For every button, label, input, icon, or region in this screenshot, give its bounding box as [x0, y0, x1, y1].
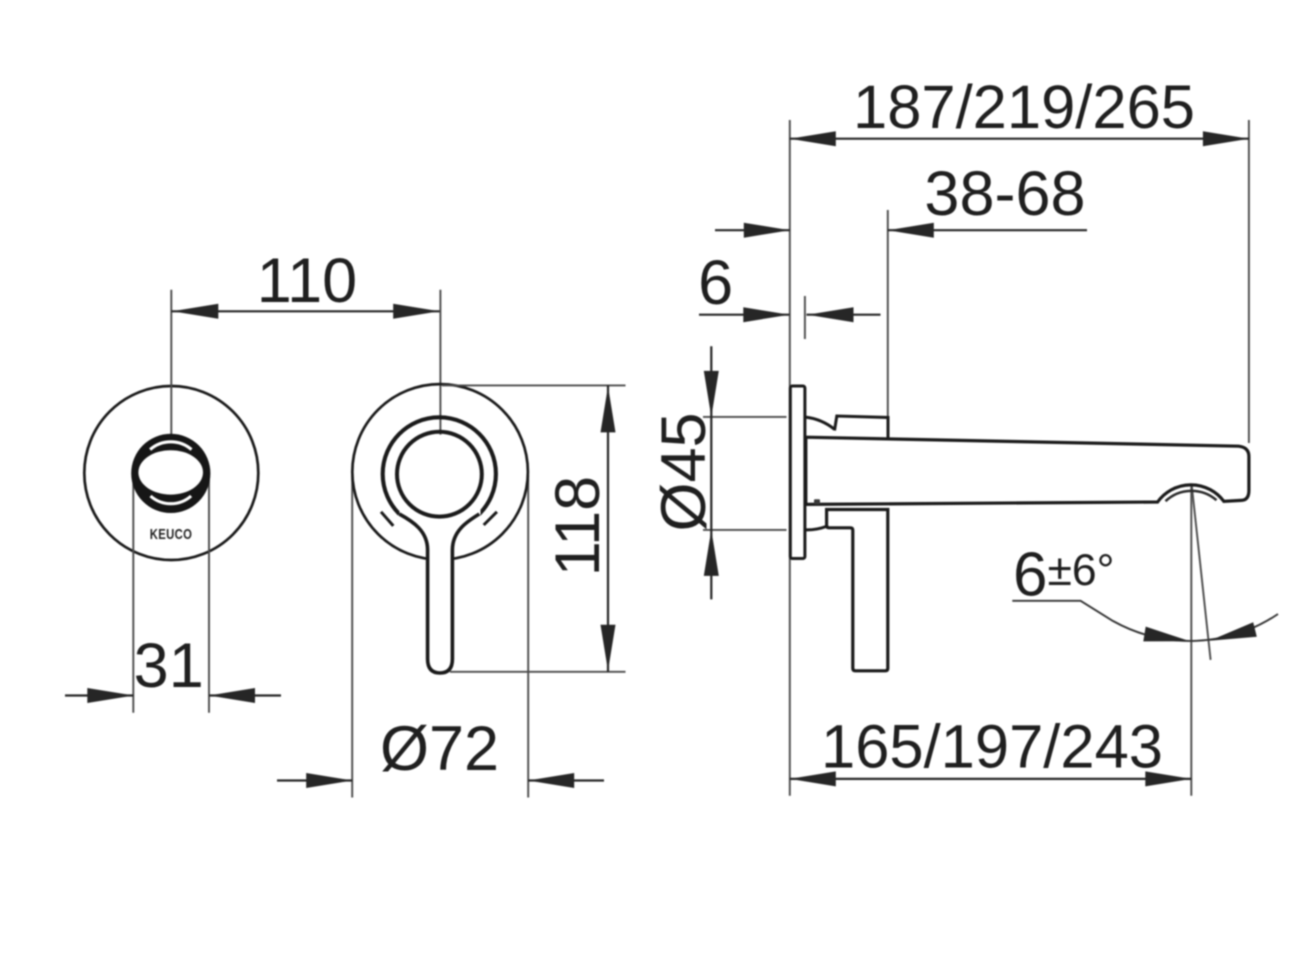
- svg-text:Ø45: Ø45: [649, 412, 719, 531]
- svg-text:110: 110: [257, 246, 357, 316]
- svg-text:31: 31: [134, 631, 204, 701]
- svg-text:Ø72: Ø72: [380, 714, 499, 784]
- svg-text:6: 6: [698, 248, 733, 318]
- svg-text:187/219/265: 187/219/265: [853, 73, 1195, 142]
- svg-text:165/197/243: 165/197/243: [821, 713, 1163, 782]
- svg-text:38-68: 38-68: [924, 159, 1085, 229]
- svg-text:KEUCO: KEUCO: [150, 526, 192, 543]
- svg-text:118: 118: [543, 476, 613, 576]
